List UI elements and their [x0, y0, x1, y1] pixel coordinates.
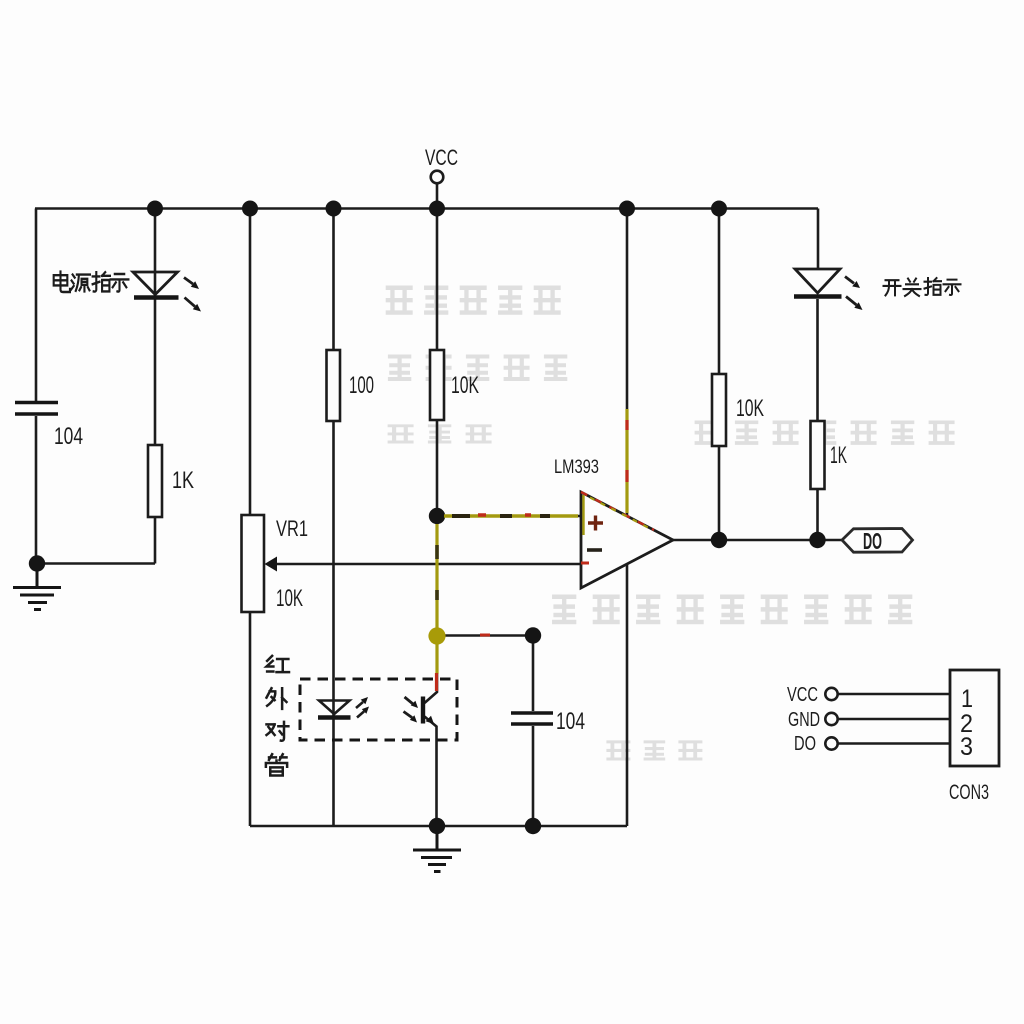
resistor R4 10K — [712, 374, 726, 446]
wire op-amp output — [673, 539, 842, 542]
node on rail x333 — [326, 201, 342, 217]
svg-text:VCC: VCC — [787, 684, 818, 706]
svg-text:1K: 1K — [830, 442, 847, 469]
pin wire DO — [838, 742, 950, 745]
pin wire VCC — [838, 693, 950, 696]
svg-text:1K: 1K — [172, 467, 194, 494]
IR emitter diode D3 — [318, 697, 369, 718]
resistor R3 10K — [430, 350, 444, 420]
node IR pair yellow junction — [428, 627, 445, 644]
wire IR node to C2 node — [437, 634, 533, 637]
node on rail x250 — [242, 201, 258, 217]
wire op-amp power rail pass-through — [626, 209, 629, 827]
node on rail x719 — [711, 201, 727, 217]
node bottom rail x437 — [429, 818, 445, 834]
dashed box IR pair — [300, 679, 457, 740]
pin circle VCC — [825, 688, 837, 700]
phototransistor Q1 — [404, 697, 435, 725]
svg-text:100: 100 — [349, 372, 374, 399]
node C2 top — [525, 627, 541, 643]
DO output flag — [842, 528, 913, 554]
highlighted trace plus input — [437, 409, 628, 691]
pin wire GND — [838, 718, 950, 721]
potentiometer VR1 — [242, 515, 278, 612]
svg-text:10K: 10K — [736, 395, 764, 422]
wire R4 10K right branch — [718, 209, 721, 375]
watermark row 1 — [386, 288, 561, 313]
connector CON3 — [950, 670, 999, 766]
watermark row 2 — [388, 357, 567, 380]
svg-text:DO: DO — [863, 528, 882, 554]
svg-text:DO: DO — [794, 733, 816, 755]
node output x817 — [809, 532, 825, 548]
svg-text:10K: 10K — [451, 372, 479, 399]
wire below C1 to ground node — [35, 416, 38, 564]
wire bottom ground rail — [250, 825, 627, 828]
wire noninverting input — [437, 515, 581, 518]
pin circle DO — [825, 737, 837, 749]
node on rail x437 — [429, 201, 445, 217]
LED D2 switch indicator — [794, 269, 863, 310]
svg-text:104: 104 — [54, 423, 83, 450]
wire LED D1 branch — [154, 209, 157, 446]
watermark row 5 — [606, 742, 702, 759]
label IR pair 红外对管 vertical — [266, 656, 289, 776]
wire R5 bottom to output node — [816, 489, 819, 540]
watermark row 4 — [552, 597, 912, 622]
svg-text:10K: 10K — [276, 585, 303, 612]
node on rail x627 — [619, 201, 635, 217]
resistor R5 1K — [811, 421, 825, 489]
pin circle GND — [825, 713, 837, 725]
svg-text:3: 3 — [960, 733, 973, 761]
resistor R1 1K — [148, 445, 162, 517]
watermark row 3 — [388, 422, 955, 443]
node output x719 — [711, 532, 727, 548]
wire C2 top lead — [532, 636, 535, 712]
red speck on C2 wire — [480, 634, 490, 637]
ground bottom — [413, 826, 461, 872]
node plus input — [429, 508, 445, 524]
wire from plus node down to IR pair node — [436, 516, 439, 636]
svg-text:LM393: LM393 — [554, 457, 599, 478]
wire C2 bottom lead — [532, 726, 535, 826]
node ground left — [29, 555, 45, 571]
wire R3 10K branch — [436, 209, 439, 517]
LED D1 power indicator — [133, 272, 201, 312]
svg-text:CON3: CON3 — [949, 781, 989, 804]
capacitor C2 104 — [511, 713, 553, 724]
wire R4 bottom to output wire — [718, 446, 721, 540]
wire ground node to R1 bottom — [37, 562, 155, 565]
svg-text:VR1: VR1 — [276, 516, 308, 541]
op-amp U1 LM393 — [581, 492, 673, 588]
wire inverting input from VR1 wiper — [276, 563, 581, 566]
node bottom rail x533 — [525, 818, 541, 834]
VCC terminal — [425, 145, 458, 209]
svg-text:GND: GND — [788, 709, 820, 731]
capacitor C1 104 — [15, 403, 58, 415]
svg-text:1: 1 — [961, 685, 973, 713]
wire R2 100 branch down to IR LED and ground rail — [332, 209, 335, 827]
wire left branch down from rail — [35, 209, 38, 402]
node on rail x155 — [147, 201, 163, 217]
wire phototransistor emitter to ground rail — [425, 717, 437, 827]
wire right LED branch from rail corner — [817, 209, 820, 270]
wire VR1 top lead — [249, 209, 252, 516]
label switch indicator 开关指示 — [884, 278, 961, 296]
plus symbol — [588, 516, 603, 531]
svg-text:VCC: VCC — [425, 145, 458, 170]
label power indicator 电源指示 — [54, 272, 129, 292]
minus symbol — [587, 548, 602, 552]
ground left — [13, 564, 61, 610]
svg-text:104: 104 — [556, 708, 585, 735]
wire R1 to ground wire — [154, 517, 157, 564]
resistor R2 100 — [327, 350, 341, 421]
wire LED D2 to R5 — [816, 299, 819, 421]
wire VR1 bottom lead — [249, 612, 252, 826]
wire phototransistor collector — [425, 636, 438, 703]
wire VCC top rail — [35, 207, 818, 210]
